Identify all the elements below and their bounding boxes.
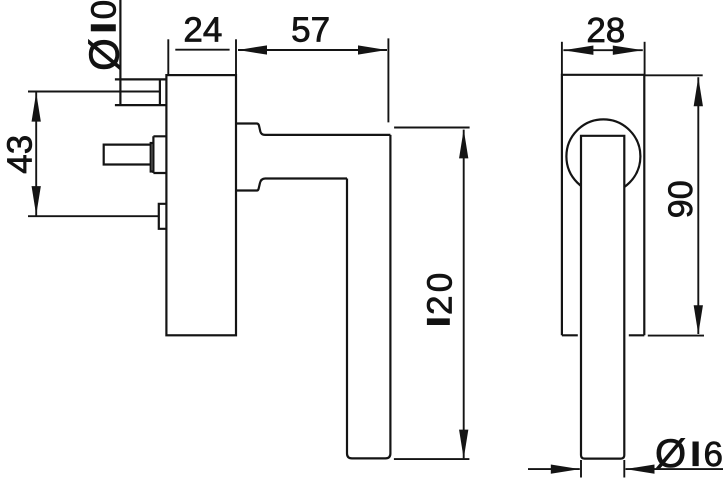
svg-text:90: 90 — [662, 180, 700, 218]
svg-text:28: 28 — [586, 11, 625, 50]
svg-text:6: 6 — [703, 435, 722, 474]
svg-text:2: 2 — [421, 296, 460, 315]
svg-text:24: 24 — [183, 10, 222, 49]
svg-text:0: 0 — [421, 273, 460, 292]
svg-text:57: 57 — [291, 11, 330, 50]
svg-text:Ø: Ø — [655, 432, 686, 476]
svg-text:43: 43 — [0, 135, 39, 174]
svg-text:0: 0 — [84, 0, 123, 19]
svg-text:Ø: Ø — [81, 38, 128, 71]
